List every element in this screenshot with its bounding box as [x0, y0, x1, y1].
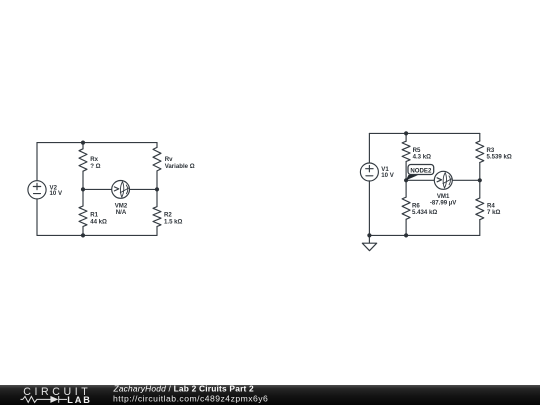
resistor R2: [153, 189, 161, 235]
svg-text:http://circuitlab.com/c489z4zp: http://circuitlab.com/c489z4zpmx6y6: [113, 394, 268, 404]
footer bar: [0, 385, 540, 405]
junction top-left bridge node: [81, 141, 85, 145]
svg-text:N/A: N/A: [116, 209, 127, 216]
junction node R3/R4: [478, 178, 482, 182]
label VM2 value: [115, 203, 128, 217]
resistor R6: [402, 180, 410, 235]
label V2: [50, 184, 63, 196]
resistor R5: [402, 133, 410, 180]
resistor R3: [476, 133, 484, 180]
svg-text:ZacharyHodd / Lab 2 Ciruits Pa: ZacharyHodd / Lab 2 Ciruits Part 2: [113, 383, 255, 393]
junction ground node: [367, 233, 371, 237]
wire bridge right (VM2 to Rv node): [129, 188, 157, 190]
label Rv value: [165, 156, 195, 170]
wire left branch lower lead: [36, 199, 38, 236]
label R5 value: [413, 147, 432, 161]
junction node Rv/R2: [155, 187, 159, 191]
voltmeter VM2: [112, 181, 130, 199]
label R2 value: [164, 212, 183, 226]
svg-text:Variable Ω: Variable Ω: [165, 163, 195, 170]
svg-text:4.3 kΩ: 4.3 kΩ: [413, 153, 432, 160]
resistor R4: [476, 180, 484, 235]
svg-text:7 kΩ: 7 kΩ: [487, 209, 500, 216]
resistor Rx: [79, 143, 87, 190]
svg-text:44 kΩ: 44 kΩ: [90, 218, 107, 225]
label V1: [381, 166, 394, 179]
svg-text:1.5 kΩ: 1.5 kΩ: [164, 218, 183, 225]
resistor R1: [79, 189, 87, 235]
svg-text:5.539 kΩ: 5.539 kΩ: [487, 153, 512, 160]
label VM1 value: [430, 193, 457, 206]
wire left branch upper lead: [36, 143, 38, 181]
svg-text:? Ω: ? Ω: [90, 163, 100, 170]
wire V1 lower lead: [368, 181, 370, 235]
voltage source V2: [28, 181, 46, 199]
label R3 value: [487, 147, 512, 161]
wire bridge left (NODE2 to VM1): [406, 179, 434, 181]
junction top node R5: [404, 131, 408, 135]
wire bridge right (VM1 to R3/R4 node): [452, 179, 480, 181]
svg-text:NODE2: NODE2: [410, 167, 432, 174]
wire bottom bus (left circuit): [37, 234, 157, 236]
wire V1 upper lead: [368, 133, 370, 163]
wire top bus (left circuit): [37, 142, 157, 144]
wire top bus (right circuit): [369, 132, 479, 134]
voltage source V1: [360, 163, 378, 181]
CircuitLab logo: [21, 386, 92, 405]
node NODE2 flag: [406, 165, 434, 181]
junction bottom-left bridge node: [81, 233, 85, 237]
voltmeter VM1: [434, 171, 452, 189]
svg-text:5.434 kΩ: 5.434 kΩ: [412, 209, 437, 216]
wire bridge left (Rx node to VM2): [83, 188, 112, 190]
svg-text:10 V: 10 V: [50, 190, 63, 197]
label Rx value: [90, 156, 100, 170]
resistor Rv: [153, 143, 161, 190]
svg-text:-87.99 µV: -87.99 µV: [430, 199, 457, 206]
junction bottom node R6: [404, 233, 408, 237]
label R1 value: [90, 212, 107, 226]
label R6 value: [412, 203, 437, 217]
junction node NODE2 (R5/R6): [404, 178, 408, 182]
svg-text:10 V: 10 V: [381, 172, 394, 179]
wire bottom bus (right circuit): [369, 234, 479, 236]
junction node Rx/R1: [81, 187, 85, 191]
label R4 value: [487, 203, 500, 217]
svg-text:LAB: LAB: [67, 395, 92, 405]
ground: [362, 235, 376, 250]
